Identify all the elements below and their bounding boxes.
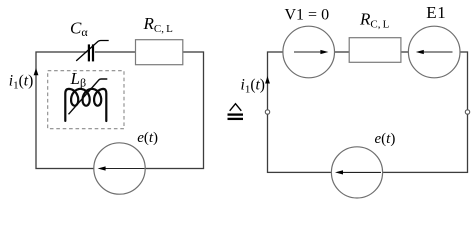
- svg-text:i1(t): i1(t): [241, 77, 265, 96]
- current arrow i1 left circuit: [34, 68, 39, 75]
- inductor Lb coil: [65, 89, 106, 121]
- svg-text:V1 = 0: V1 = 0: [285, 7, 330, 24]
- svg-text:e(t): e(t): [137, 130, 158, 146]
- source e(t) right arrow: [341, 171, 382, 173]
- inductor Lb tuning stroke: [69, 79, 108, 114]
- terminal node left: [265, 110, 269, 114]
- svg-text:e(t): e(t): [375, 131, 396, 147]
- source E1 arrow: [423, 51, 453, 53]
- svg-text:E1: E1: [426, 3, 446, 22]
- source V1 right circuit: [283, 26, 335, 78]
- capacitor Ca: [87, 44, 94, 63]
- source e(t) left circuit: [94, 143, 145, 194]
- resistor RCL right: [349, 38, 401, 63]
- source e(t) right circuit: [331, 147, 382, 198]
- source e(t) left arrow: [103, 168, 145, 170]
- svg-text:i1(t): i1(t): [9, 73, 33, 92]
- equivalence symbol: [230, 104, 242, 111]
- capacitor Ca plates: [88, 44, 90, 61]
- wire loop right circuit: [268, 52, 468, 172]
- wire loop left circuit: [36, 52, 204, 169]
- terminal node right: [465, 110, 469, 114]
- resistor RCL left: [136, 40, 183, 65]
- dashed box around inductor Lb: [48, 71, 124, 129]
- capacitor Ca tuning stroke: [76, 41, 109, 61]
- source V1 arrow: [294, 51, 321, 53]
- current arrow i1 right circuit: [265, 76, 270, 84]
- source E1 right circuit: [408, 26, 460, 78]
